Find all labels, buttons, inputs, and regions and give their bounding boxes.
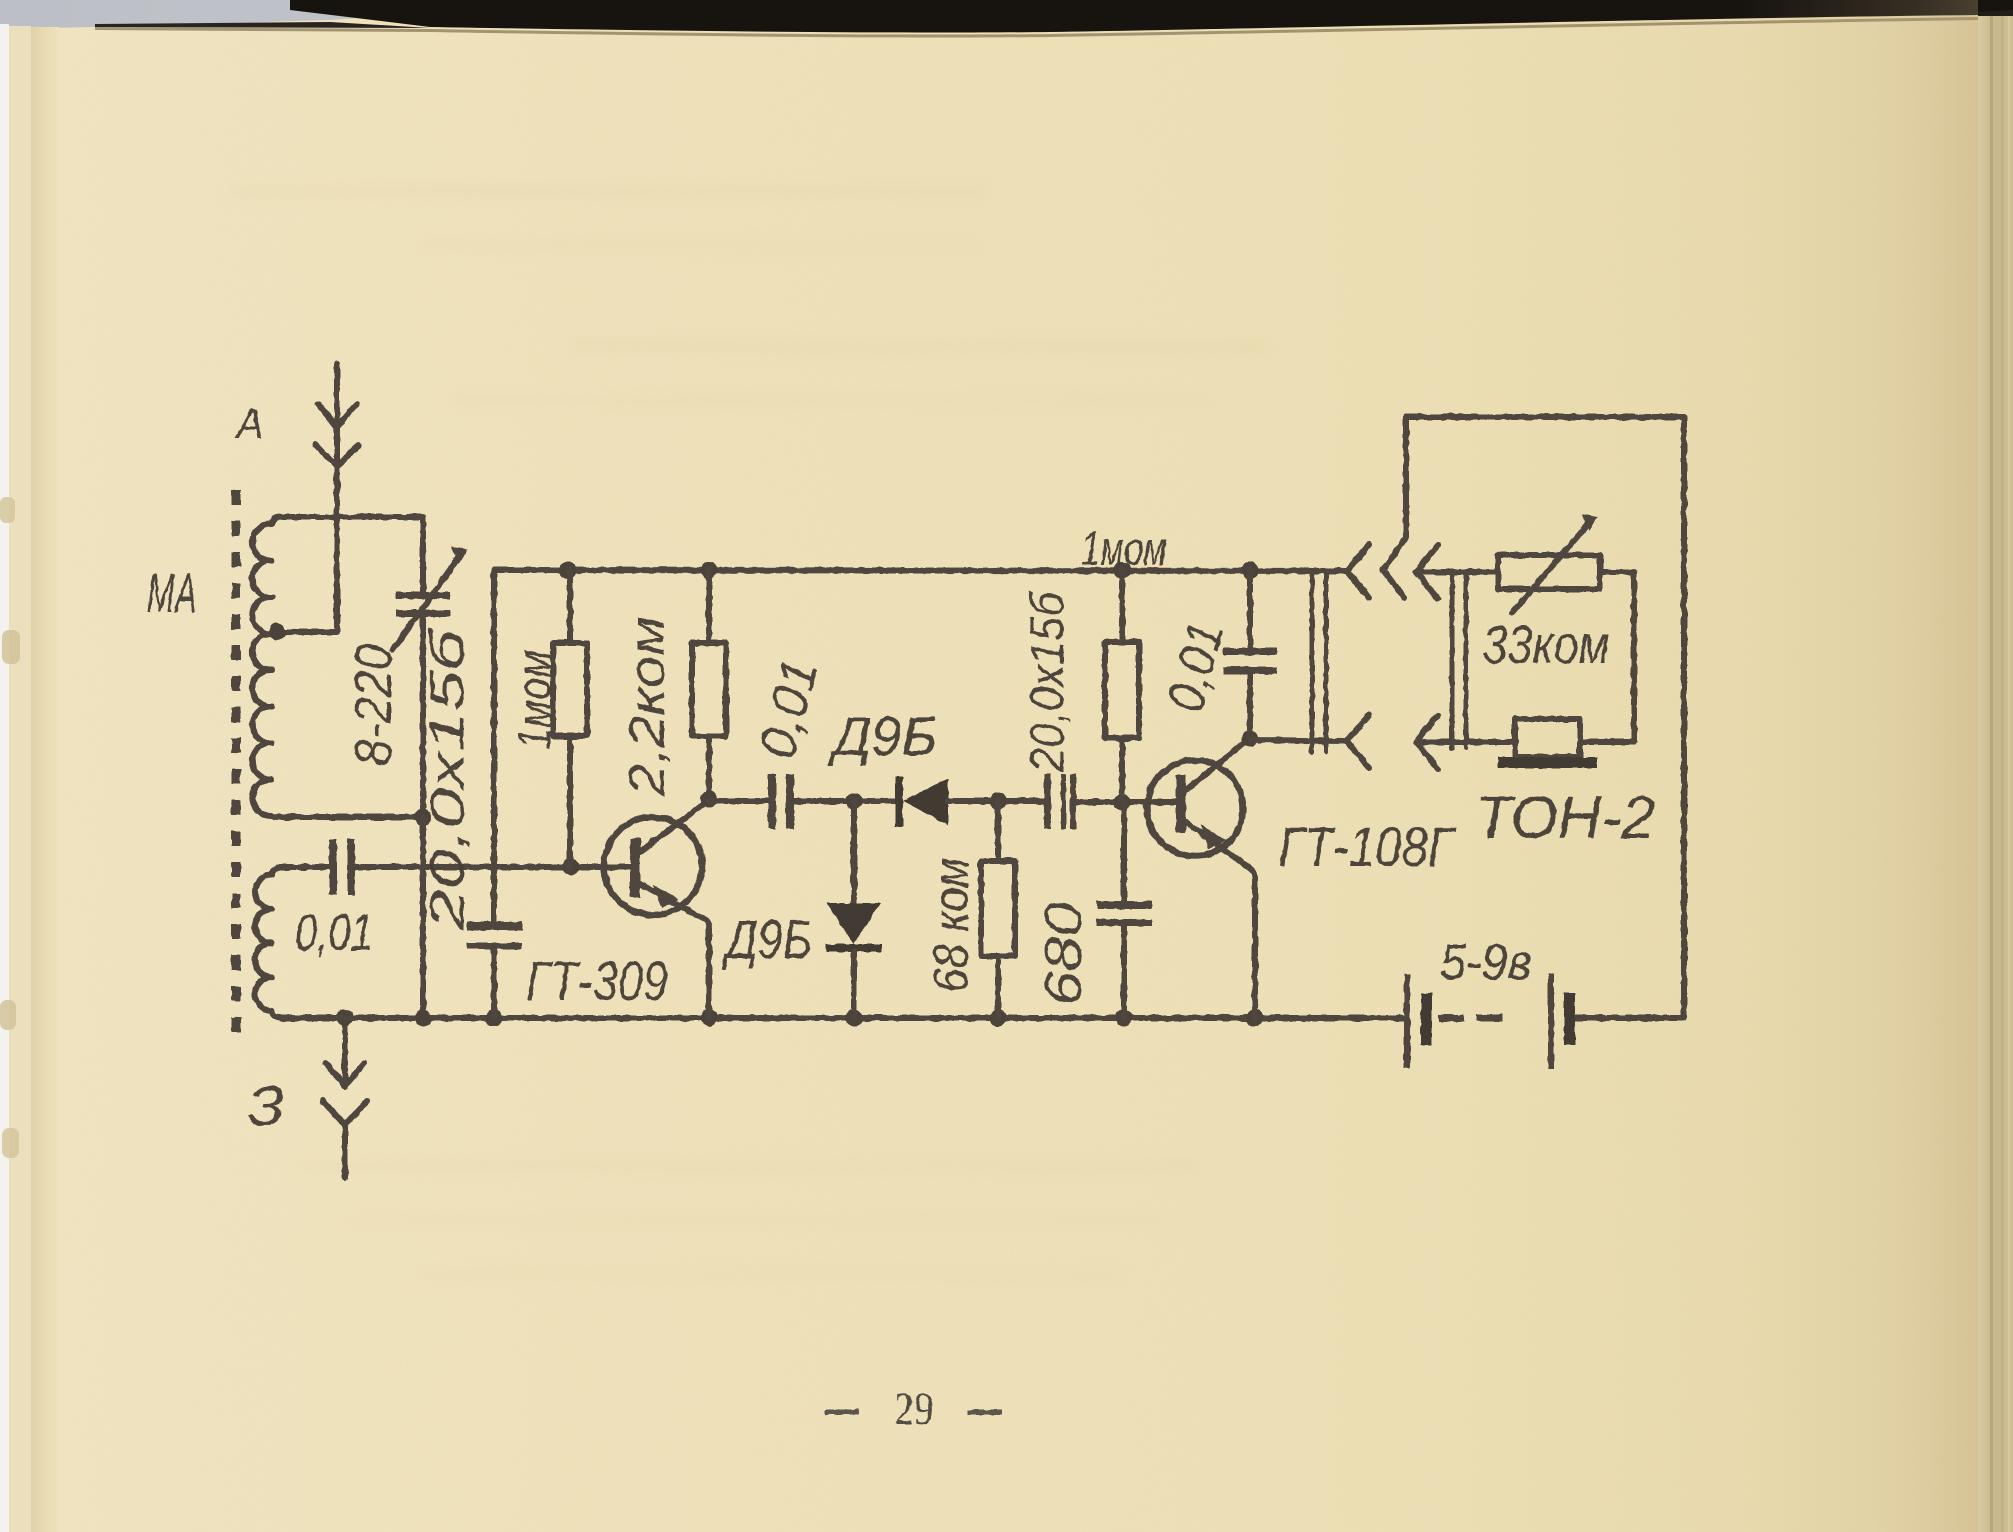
wire varcap line down to bottom rail: [420, 817, 426, 1018]
wire collector to jack: [1250, 740, 1347, 741]
resistor 1мом (feedback, second stage): [1105, 570, 1139, 802]
svg-text:5-9в: 5-9в: [1440, 934, 1532, 990]
capacitor 0,01 (second stage, collector to bus): [1223, 570, 1277, 738]
svg-text:ГТ-309: ГТ-309: [526, 949, 668, 1012]
ground antenna symbol З: [323, 1018, 367, 1178]
resistor 1мом (base bias R1): [553, 570, 587, 867]
wire left vertical branch: [491, 570, 497, 922]
wire bottom rail: [281, 1015, 1407, 1021]
wire cap to base node: [1076, 799, 1176, 805]
headphones ТОН-2: [1498, 719, 1597, 768]
wire cap to diode node: [794, 798, 895, 804]
resistor 68 ком: [981, 801, 1015, 1018]
scanner gray band top-left: [0, 0, 2013, 29]
resistor 33ком (variable, tone): [1498, 514, 1634, 613]
jack plug chevron bottom-left: [1347, 715, 1369, 768]
node junction varcap/coil bottom: [415, 809, 432, 826]
wire jack to 33k: [1416, 569, 1498, 575]
diode Д9Б (shunt): [826, 801, 882, 1018]
svg-text:20,0х15б: 20,0х15б: [1022, 590, 1075, 773]
transistor ГТ-309: [604, 799, 710, 1018]
wire output loop (top and right side): [1406, 417, 1684, 1018]
capacitor 0,01 (coupling): [768, 774, 794, 829]
wire coil tap to antenna: [274, 629, 337, 635]
svg-text:ГТ-108Г: ГТ-108Г: [1279, 815, 1457, 878]
svg-text:1мом: 1мом: [508, 650, 560, 750]
diode Д9Б (series detector): [895, 777, 1044, 827]
capacitor 20,0x15б (first electrolytic): [467, 922, 522, 949]
jack plug chevron bottom-right: [1416, 715, 1438, 769]
battery 5-9в: [1404, 974, 1575, 1068]
wire electrolytic to rail: [491, 949, 497, 1018]
wire base wire to T1: [355, 864, 631, 870]
svg-text:20,0х15б: 20,0х15б: [422, 627, 475, 932]
right page-block edge band: [1978, 12, 2013, 1532]
node rail junctions: [415, 1010, 1264, 1027]
jack plug chevron top-right: [1416, 545, 1438, 599]
node R1 bottom junction: [563, 859, 580, 876]
svg-text:Д9Б: Д9Б: [827, 705, 937, 767]
wire base wire left segment: [278, 864, 329, 870]
svg-text:29: 29: [894, 1383, 934, 1434]
capacitor 0,01 (antenna series cap): [329, 839, 355, 895]
wire collector node to coupling cap: [709, 798, 768, 804]
node top bus junctions: [560, 562, 1259, 579]
svg-text:8-220: 8-220: [345, 644, 403, 766]
wire jack to phones: [1416, 739, 1515, 745]
wire 33k right branch down: [1580, 572, 1634, 742]
svg-text:680: 680: [1035, 902, 1093, 1006]
transistor ГТ-108Г: [1147, 738, 1255, 1018]
svg-text:ТОН-2: ТОН-2: [1475, 784, 1655, 851]
node coil tap junction: [269, 624, 286, 641]
svg-text:А: А: [234, 400, 264, 447]
node T2 base junction: [1114, 794, 1131, 811]
jack socket contact pair (left): [1312, 572, 1326, 752]
capacitor 680: [1097, 802, 1152, 1018]
svg-text:0,01: 0,01: [295, 904, 373, 962]
stitching marks on left edge: [0, 497, 15, 523]
node detector input junction: [846, 793, 863, 810]
svg-text:1мом: 1мом: [1081, 523, 1167, 576]
page top edge highlight line: [95, 17, 2013, 38]
node МА dashed boundary line: [232, 490, 241, 1046]
svg-text:2,2ком: 2,2ком: [619, 616, 675, 797]
inductor L2 (coupling coil): [255, 867, 282, 1018]
svg-text:З: З: [248, 1074, 285, 1137]
inductor L1 (antenna coil, tapped): [252, 517, 423, 817]
jack plug chevron top-middle with loop lead: [1383, 417, 1406, 597]
jack socket contact pair (right): [1452, 572, 1466, 748]
black book spine strip along top: [290, 0, 2013, 33]
svg-text:Д9Б: Д9Б: [721, 908, 812, 970]
wire top supply bus: [494, 570, 1347, 571]
node T2 collector junction: [1242, 730, 1259, 747]
capacitor 20,0x15б (second electrolytic, coupling): [1044, 774, 1076, 829]
svg-text:68 ком: 68 ком: [923, 858, 979, 993]
node T1 collector junction: [701, 791, 718, 808]
node ground stub junction: [337, 1010, 354, 1027]
svg-text:33ком: 33ком: [1483, 615, 1610, 675]
node 68k top junction: [990, 793, 1007, 810]
jack plug chevron top-left: [1347, 545, 1369, 598]
resistor 2,2ком (collector load R2): [692, 570, 726, 799]
page number 29: [825, 1383, 1002, 1434]
capacitor 8-220 (variable): [393, 517, 468, 817]
left scanner white sliver and page stack edge: [0, 24, 9, 1532]
antenna A symbol: [315, 364, 359, 631]
svg-text:МА: МА: [147, 561, 197, 624]
